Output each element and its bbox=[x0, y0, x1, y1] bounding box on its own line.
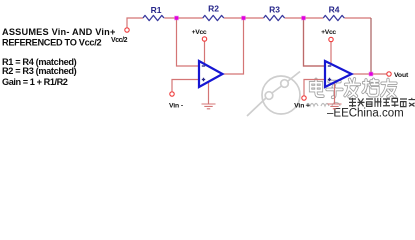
svg-text:REFERENCED TO Vcc/2: REFERENCED TO Vcc/2 bbox=[2, 37, 101, 47]
svg-text:Vcc/2: Vcc/2 bbox=[111, 37, 128, 44]
svg-text:ASSUMES Vin- AND Vin+: ASSUMES Vin- AND Vin+ bbox=[2, 27, 116, 37]
svg-text:R3: R3 bbox=[269, 5, 280, 15]
svg-text:R4: R4 bbox=[329, 5, 340, 15]
svg-text:Gain = 1 + R1/R2: Gain = 1 + R1/R2 bbox=[2, 77, 68, 87]
svg-text:+Vcc: +Vcc bbox=[321, 29, 336, 36]
svg-text:+Vcc: +Vcc bbox=[192, 29, 207, 36]
svg-text:R2: R2 bbox=[208, 4, 219, 14]
svg-text:–EEChina.com: –EEChina.com bbox=[327, 108, 404, 120]
svg-text:Vin -: Vin - bbox=[169, 102, 183, 109]
svg-text:Vin +: Vin + bbox=[294, 102, 310, 109]
svg-text:R1: R1 bbox=[151, 5, 162, 15]
svg-text:Vout: Vout bbox=[394, 72, 409, 79]
svg-text:R2 = R3 (matched): R2 = R3 (matched) bbox=[2, 66, 77, 76]
